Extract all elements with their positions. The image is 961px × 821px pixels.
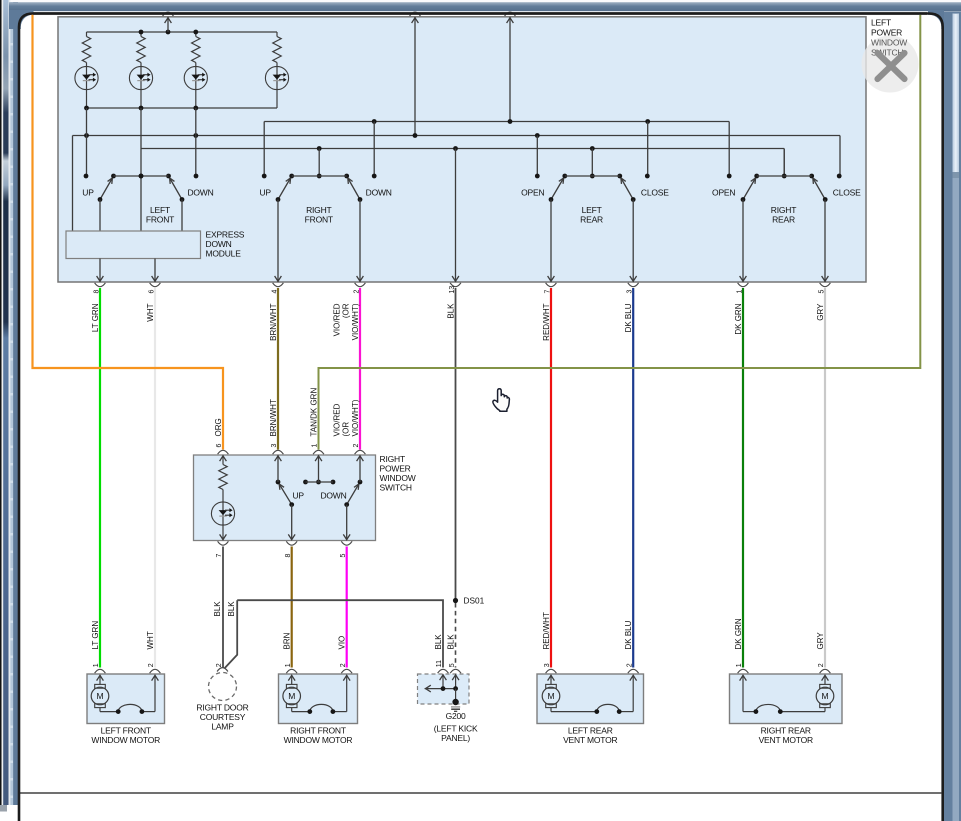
svg-text:WINDOW: WINDOW xyxy=(871,38,907,48)
svg-text:PANEL): PANEL) xyxy=(441,733,470,743)
svg-text:UP: UP xyxy=(292,490,304,500)
svg-text:2: 2 xyxy=(148,663,155,667)
svg-text:1: 1 xyxy=(285,663,292,667)
svg-text:VIO/RED: VIO/RED xyxy=(332,303,341,336)
svg-text:DOWN: DOWN xyxy=(320,490,346,500)
svg-text:BRN/WHT: BRN/WHT xyxy=(269,399,278,436)
svg-text:POWER: POWER xyxy=(871,28,902,38)
svg-text:BLK: BLK xyxy=(447,303,456,319)
svg-text:COURTESY: COURTESY xyxy=(200,712,246,722)
svg-text:WHT: WHT xyxy=(146,303,155,321)
svg-text:UP: UP xyxy=(82,187,94,197)
svg-text:(OR: (OR xyxy=(342,422,351,437)
svg-text:3: 3 xyxy=(627,290,634,294)
svg-text:DK BLU: DK BLU xyxy=(624,620,633,649)
svg-text:OPEN: OPEN xyxy=(712,187,735,197)
svg-text:DOWN: DOWN xyxy=(366,187,392,197)
svg-text:DOWN: DOWN xyxy=(206,239,232,249)
svg-text:LEFT: LEFT xyxy=(871,18,891,28)
svg-text:LEFT FRONT: LEFT FRONT xyxy=(101,726,151,736)
svg-text:2: 2 xyxy=(818,663,825,667)
svg-text:3: 3 xyxy=(271,444,278,448)
svg-text:BRN/WHT: BRN/WHT xyxy=(269,303,278,340)
svg-text:M: M xyxy=(288,691,295,701)
svg-text:LEFT REAR: LEFT REAR xyxy=(568,726,613,736)
svg-text:DK BLU: DK BLU xyxy=(624,303,633,332)
svg-text:RIGHT: RIGHT xyxy=(380,454,405,464)
svg-text:GRY: GRY xyxy=(816,632,825,650)
svg-text:VIO/RED: VIO/RED xyxy=(332,403,341,436)
svg-text:RIGHT: RIGHT xyxy=(306,205,331,215)
svg-text:GRY: GRY xyxy=(816,303,825,321)
svg-text:BLK: BLK xyxy=(447,634,456,650)
svg-text:RIGHT: RIGHT xyxy=(771,205,796,215)
svg-text:SWITCH: SWITCH xyxy=(380,482,412,492)
svg-text:2: 2 xyxy=(216,663,223,667)
svg-text:TAN/DK GRN: TAN/DK GRN xyxy=(310,388,319,437)
svg-text:7: 7 xyxy=(544,290,551,294)
svg-text:VIO: VIO xyxy=(338,636,347,650)
svg-text:VENT MOTOR: VENT MOTOR xyxy=(759,735,813,745)
svg-text:RIGHT FRONT: RIGHT FRONT xyxy=(290,726,346,736)
svg-text:OPEN: OPEN xyxy=(521,187,544,197)
svg-text:LEFT: LEFT xyxy=(582,205,602,215)
svg-text:VIO/WHT): VIO/WHT) xyxy=(351,399,360,436)
svg-text:DK GRN: DK GRN xyxy=(734,303,743,334)
svg-text:RED/WHT: RED/WHT xyxy=(542,612,551,649)
svg-text:5: 5 xyxy=(449,663,456,667)
svg-text:11: 11 xyxy=(436,660,443,667)
svg-text:BLK: BLK xyxy=(227,601,236,617)
svg-text:UP: UP xyxy=(259,187,271,197)
svg-text:4: 4 xyxy=(271,290,278,294)
svg-text:BRN: BRN xyxy=(283,632,292,649)
svg-text:FRONT: FRONT xyxy=(305,214,333,224)
svg-text:DS01: DS01 xyxy=(464,596,485,606)
svg-text:WINDOW MOTOR: WINDOW MOTOR xyxy=(284,735,353,745)
svg-text:6: 6 xyxy=(216,444,223,448)
svg-text:1: 1 xyxy=(93,663,100,667)
svg-text:LAMP: LAMP xyxy=(211,721,234,731)
svg-text:2: 2 xyxy=(353,290,360,294)
svg-text:VENT MOTOR: VENT MOTOR xyxy=(563,735,617,745)
svg-text:2: 2 xyxy=(353,444,360,448)
svg-text:1: 1 xyxy=(736,290,743,294)
svg-text:8: 8 xyxy=(93,290,100,294)
svg-text:(OR: (OR xyxy=(342,303,351,318)
svg-text:CLOSE: CLOSE xyxy=(833,187,861,197)
svg-text:EXPRESS: EXPRESS xyxy=(206,229,245,239)
svg-text:BLK: BLK xyxy=(434,634,443,650)
svg-text:DOWN: DOWN xyxy=(187,187,213,197)
svg-text:2: 2 xyxy=(340,663,347,667)
svg-text:M: M xyxy=(97,691,104,701)
svg-text:1: 1 xyxy=(312,444,319,448)
svg-text:G200: G200 xyxy=(446,711,466,721)
svg-text:DK GRN: DK GRN xyxy=(734,618,743,649)
svg-text:CLOSE: CLOSE xyxy=(641,187,669,197)
svg-text:BLK: BLK xyxy=(213,601,222,617)
svg-text:RIGHT DOOR: RIGHT DOOR xyxy=(196,702,248,712)
svg-text:REAR: REAR xyxy=(580,214,603,224)
svg-text:WINDOW MOTOR: WINDOW MOTOR xyxy=(91,735,160,745)
svg-text:LT GRN: LT GRN xyxy=(91,621,100,650)
svg-text:LEFT: LEFT xyxy=(150,205,170,215)
svg-text:3: 3 xyxy=(544,663,551,667)
svg-text:2: 2 xyxy=(626,663,633,667)
svg-text:VIO/WHT): VIO/WHT) xyxy=(351,303,360,340)
svg-text:RED/WHT: RED/WHT xyxy=(542,303,551,340)
svg-text:M: M xyxy=(548,691,555,701)
svg-text:M: M xyxy=(822,691,829,701)
svg-text:FRONT: FRONT xyxy=(146,214,174,224)
svg-text:13: 13 xyxy=(449,286,456,294)
svg-text:WHT: WHT xyxy=(146,631,155,649)
svg-text:ORG: ORG xyxy=(214,418,223,436)
svg-text:LT GRN: LT GRN xyxy=(91,303,100,332)
svg-text:6: 6 xyxy=(148,290,155,294)
svg-text:POWER: POWER xyxy=(380,463,411,473)
svg-text:5: 5 xyxy=(818,290,825,294)
svg-text:RIGHT REAR: RIGHT REAR xyxy=(761,726,811,736)
svg-text:WINDOW: WINDOW xyxy=(380,473,416,483)
svg-text:REAR: REAR xyxy=(772,214,795,224)
svg-text:MODULE: MODULE xyxy=(206,248,242,258)
svg-text:1: 1 xyxy=(736,663,743,667)
